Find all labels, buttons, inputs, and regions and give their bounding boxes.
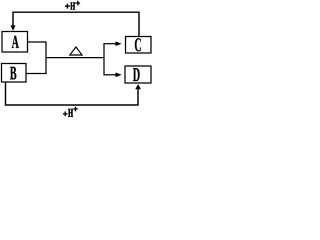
label B <box>10 67 16 80</box>
label A <box>12 36 19 48</box>
label +H+ top: plus sign <box>65 4 70 9</box>
box B <box>2 64 27 83</box>
wire arrow shaft to D <box>104 74 116 76</box>
label C <box>135 38 141 51</box>
box A <box>2 32 28 53</box>
wire middle with delta <box>46 57 104 59</box>
wire arrow shaft to C <box>104 43 116 45</box>
wire split vertical <box>103 43 105 75</box>
label +H+ bottom: H <box>68 109 73 117</box>
wire top: C to A feedback path <box>13 12 139 36</box>
label +H+ top: H <box>70 3 75 10</box>
wire bottom: B to D path <box>6 83 139 106</box>
label +H+ top: superscript plus <box>76 1 81 6</box>
delta (heat) symbol <box>70 47 82 55</box>
label D <box>133 68 140 81</box>
wire B connector <box>26 73 46 75</box>
label +H+ bottom: plus sign <box>63 112 68 117</box>
wire bracket vertical <box>45 41 47 74</box>
arrowhead right into D <box>116 73 122 78</box>
box D <box>125 66 151 83</box>
arrowhead down into A <box>11 25 16 31</box>
wire A connector <box>28 41 47 43</box>
box C <box>126 37 152 54</box>
arrowhead right into C <box>116 41 122 46</box>
label +H+ bottom: superscript plus <box>73 107 77 112</box>
arrowhead up into D bottom <box>135 84 141 89</box>
